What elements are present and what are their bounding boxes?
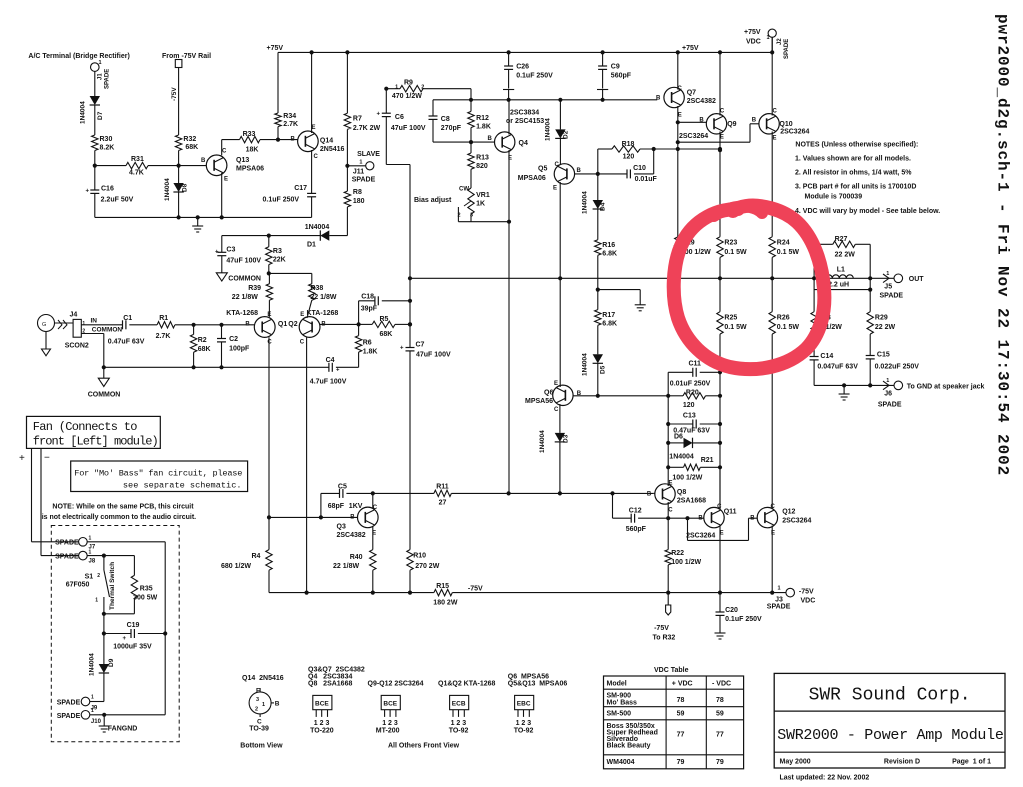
svg-text:180: 180 bbox=[353, 198, 365, 205]
svg-text:MT-200: MT-200 bbox=[376, 727, 400, 734]
svg-text:100pF: 100pF bbox=[229, 346, 250, 353]
svg-text:D4: D4 bbox=[600, 202, 607, 211]
svg-text:R39: R39 bbox=[248, 285, 261, 292]
svg-text:R8: R8 bbox=[353, 189, 362, 196]
svg-text:4. VDC will vary by model - Se: 4. VDC will vary by model - See table be… bbox=[795, 208, 940, 215]
svg-text:B: B bbox=[752, 118, 757, 124]
svg-text:R21: R21 bbox=[701, 457, 714, 464]
svg-text:2.7K: 2.7K bbox=[156, 333, 171, 340]
svg-text:1N4004: 1N4004 bbox=[305, 224, 330, 231]
svg-text:0.047uF 63V: 0.047uF 63V bbox=[817, 364, 858, 371]
svg-text:R3: R3 bbox=[273, 248, 282, 255]
svg-text:-75V: -75V bbox=[654, 625, 669, 632]
svg-text:0.1uF 250V: 0.1uF 250V bbox=[725, 616, 762, 623]
svg-text:B: B bbox=[245, 322, 250, 328]
svg-text:2SC3264: 2SC3264 bbox=[679, 133, 708, 140]
svg-text:B: B bbox=[698, 516, 703, 522]
svg-text:470 1/2W: 470 1/2W bbox=[392, 93, 422, 100]
svg-text:SM-500: SM-500 bbox=[607, 711, 632, 718]
svg-text:Last updated: 22 Nov. 2002: Last updated: 22 Nov. 2002 bbox=[780, 775, 870, 782]
svg-text:SPADE: SPADE bbox=[57, 700, 81, 707]
svg-text:Q2: Q2 bbox=[288, 321, 297, 328]
svg-text:560pF: 560pF bbox=[626, 526, 647, 533]
svg-text:TO-220: TO-220 bbox=[310, 727, 334, 734]
svg-text:Q9-Q12 2SC3264: Q9-Q12 2SC3264 bbox=[368, 681, 424, 688]
svg-text:R15: R15 bbox=[436, 583, 449, 590]
svg-text:C7: C7 bbox=[416, 342, 425, 349]
svg-text:SPADE: SPADE bbox=[55, 554, 79, 561]
svg-text:EBC: EBC bbox=[517, 701, 531, 708]
svg-text:Q1&Q2 KTA-1268: Q1&Q2 KTA-1268 bbox=[438, 681, 496, 688]
svg-text:Q3: Q3 bbox=[337, 524, 346, 531]
svg-text:front [Left] module): front [Left] module) bbox=[33, 435, 158, 449]
svg-text:0.1uF 250V: 0.1uF 250V bbox=[263, 197, 300, 204]
svg-text:J2: J2 bbox=[777, 38, 783, 45]
svg-text:300 5W: 300 5W bbox=[133, 595, 158, 602]
svg-text:R35: R35 bbox=[140, 586, 153, 593]
svg-text:2. All resistor in ohms, 1/4 w: 2. All resistor in ohms, 1/4 watt, 5% bbox=[795, 169, 912, 176]
svg-text:or 2SC4153: or 2SC4153 bbox=[506, 118, 544, 125]
svg-text:E: E bbox=[553, 186, 557, 192]
svg-text:68K: 68K bbox=[198, 346, 211, 353]
svg-text:C19: C19 bbox=[127, 622, 140, 629]
svg-text:Bottom View: Bottom View bbox=[240, 743, 283, 750]
svg-text:1: 1 bbox=[89, 536, 92, 542]
svg-text:Q6 MPSA56: Q6 MPSA56 bbox=[508, 674, 549, 681]
svg-text:C: C bbox=[267, 340, 272, 346]
svg-text:J1: J1 bbox=[98, 73, 104, 80]
svg-text:VDC Table: VDC Table bbox=[654, 667, 689, 674]
svg-text:C9: C9 bbox=[611, 64, 620, 71]
svg-text:+: + bbox=[19, 453, 25, 464]
svg-text:B: B bbox=[488, 136, 493, 142]
svg-text:B: B bbox=[350, 515, 355, 521]
svg-text:J6: J6 bbox=[884, 391, 892, 398]
svg-text:R24: R24 bbox=[777, 240, 790, 247]
svg-text:COMMON: COMMON bbox=[92, 327, 123, 334]
svg-text:59: 59 bbox=[716, 711, 724, 718]
svg-text:1: 1 bbox=[767, 35, 770, 41]
svg-text:SM-900: SM-900 bbox=[607, 693, 632, 700]
svg-text:1N4004: 1N4004 bbox=[164, 178, 171, 201]
svg-text:D5: D5 bbox=[600, 365, 607, 374]
svg-text:47uF 100V: 47uF 100V bbox=[391, 125, 426, 132]
svg-text:0.01uF: 0.01uF bbox=[635, 176, 658, 183]
svg-text:VDC: VDC bbox=[746, 39, 761, 46]
svg-text:560pF: 560pF bbox=[611, 73, 632, 80]
svg-text:1: 1 bbox=[359, 160, 362, 166]
svg-text:Q4: Q4 bbox=[519, 140, 528, 147]
svg-text:MPSA56: MPSA56 bbox=[525, 398, 553, 405]
svg-text:+75V: +75V bbox=[744, 29, 761, 36]
svg-text:C: C bbox=[771, 504, 776, 510]
svg-text:COMMON: COMMON bbox=[228, 276, 261, 283]
svg-text:1: 1 bbox=[99, 60, 102, 66]
svg-text:C15: C15 bbox=[877, 352, 890, 359]
svg-text:Q5&Q13 MPSA06: Q5&Q13 MPSA06 bbox=[508, 681, 568, 688]
svg-text:68K: 68K bbox=[185, 144, 198, 151]
svg-text:Q14 2N5416: Q14 2N5416 bbox=[242, 675, 284, 682]
svg-text:68pF: 68pF bbox=[328, 503, 345, 510]
svg-text:R25: R25 bbox=[724, 315, 737, 322]
svg-text:100 1/2W: 100 1/2W bbox=[671, 559, 701, 566]
svg-text:C6: C6 bbox=[395, 114, 404, 121]
svg-text:1 2 3: 1 2 3 bbox=[314, 720, 330, 727]
svg-text:79: 79 bbox=[716, 759, 724, 766]
svg-text:2SC3834: 2SC3834 bbox=[510, 110, 539, 117]
svg-text:78: 78 bbox=[677, 697, 685, 704]
svg-text:22 2W: 22 2W bbox=[835, 252, 856, 259]
svg-text:18K: 18K bbox=[246, 147, 259, 154]
svg-text:Revision D: Revision D bbox=[884, 759, 920, 766]
svg-text:C10: C10 bbox=[633, 165, 646, 172]
svg-text:C13: C13 bbox=[683, 413, 696, 420]
svg-text:Q7: Q7 bbox=[687, 90, 696, 97]
svg-text:2SC3264: 2SC3264 bbox=[780, 129, 809, 136]
svg-text:1N4004: 1N4004 bbox=[582, 353, 589, 376]
svg-text:For "Mo' Bass" fan circuit, pl: For "Mo' Bass" fan circuit, please bbox=[74, 469, 242, 479]
svg-text:8.2K: 8.2K bbox=[100, 145, 115, 152]
svg-text:820: 820 bbox=[476, 163, 488, 170]
svg-text:R11: R11 bbox=[436, 484, 449, 491]
svg-text:C16: C16 bbox=[101, 186, 114, 193]
svg-text:NOTES (Unless otherwise specif: NOTES (Unless otherwise specified): bbox=[795, 141, 918, 148]
svg-text:C: C bbox=[373, 505, 378, 511]
svg-text:SPADE: SPADE bbox=[352, 177, 376, 184]
svg-text:0.1uF 250V: 0.1uF 250V bbox=[516, 73, 553, 80]
svg-text:TO-92: TO-92 bbox=[449, 727, 469, 734]
svg-text:Q12: Q12 bbox=[782, 509, 795, 516]
svg-text:see separate schematic.: see separate schematic. bbox=[123, 481, 242, 491]
svg-text:WM4004: WM4004 bbox=[607, 759, 635, 766]
svg-text:1000uF 35V: 1000uF 35V bbox=[113, 644, 152, 651]
svg-text:4.7K: 4.7K bbox=[129, 170, 144, 177]
svg-text:1K: 1K bbox=[476, 201, 485, 208]
svg-text:R4: R4 bbox=[252, 553, 261, 560]
svg-text:6.8K: 6.8K bbox=[602, 251, 617, 258]
svg-text:SPADE: SPADE bbox=[878, 402, 902, 409]
svg-text:- VDC: - VDC bbox=[712, 681, 731, 688]
svg-text:2.7K: 2.7K bbox=[283, 121, 298, 128]
svg-text:B: B bbox=[577, 168, 582, 174]
svg-text:COMMON: COMMON bbox=[88, 392, 121, 399]
svg-text:KTA-1268: KTA-1268 bbox=[307, 310, 339, 317]
svg-text:Q14: Q14 bbox=[320, 138, 333, 145]
svg-text:1N4004: 1N4004 bbox=[582, 191, 589, 214]
svg-text:Fan (Connects to: Fan (Connects to bbox=[33, 420, 138, 434]
svg-text:Q9: Q9 bbox=[727, 121, 736, 128]
svg-text:1: 1 bbox=[91, 708, 94, 714]
svg-text:2SC4382: 2SC4382 bbox=[337, 532, 366, 539]
svg-text:D8: D8 bbox=[182, 183, 189, 192]
svg-text:1N4004: 1N4004 bbox=[545, 118, 552, 141]
svg-text:D3: D3 bbox=[563, 434, 570, 443]
svg-text:1.8K: 1.8K bbox=[363, 349, 378, 356]
svg-text:E: E bbox=[773, 136, 777, 142]
svg-text:78: 78 bbox=[716, 697, 724, 704]
svg-text:2.2uF 50V: 2.2uF 50V bbox=[101, 197, 134, 204]
svg-text:67F050: 67F050 bbox=[66, 582, 90, 589]
svg-text:TO-92: TO-92 bbox=[514, 727, 534, 734]
svg-text:79: 79 bbox=[677, 759, 685, 766]
svg-text:SLAVE: SLAVE bbox=[357, 151, 380, 158]
svg-text:TO-39: TO-39 bbox=[249, 726, 269, 733]
svg-text:3: 3 bbox=[256, 697, 259, 703]
svg-text:1: 1 bbox=[82, 321, 85, 327]
svg-text:C12: C12 bbox=[629, 508, 642, 515]
svg-text:-75V: -75V bbox=[171, 87, 178, 101]
svg-text:BCE: BCE bbox=[383, 701, 397, 708]
svg-text:J5: J5 bbox=[884, 284, 892, 291]
svg-text:59: 59 bbox=[677, 711, 685, 718]
svg-text:270pF: 270pF bbox=[441, 125, 462, 132]
svg-text:is not electrically common to: is not electrically common to the audio … bbox=[42, 514, 196, 521]
svg-text:R13: R13 bbox=[476, 155, 489, 162]
svg-text:B: B bbox=[291, 137, 296, 143]
svg-text:+75V: +75V bbox=[682, 45, 699, 52]
svg-text:B: B bbox=[647, 492, 652, 498]
svg-text:MPSA06: MPSA06 bbox=[236, 166, 264, 173]
svg-text:C8: C8 bbox=[441, 116, 450, 123]
svg-text:R30: R30 bbox=[100, 136, 113, 143]
svg-text:0.1 5W: 0.1 5W bbox=[777, 324, 800, 331]
svg-text:B: B bbox=[750, 516, 755, 522]
svg-text:R22: R22 bbox=[671, 550, 684, 557]
svg-text:Bias adjust: Bias adjust bbox=[414, 197, 452, 204]
svg-text:C: C bbox=[314, 154, 319, 160]
svg-text:+: + bbox=[123, 636, 127, 642]
svg-text:CW: CW bbox=[459, 187, 469, 193]
svg-text:22 2W: 22 2W bbox=[875, 324, 896, 331]
svg-text:1N4004: 1N4004 bbox=[80, 101, 87, 124]
svg-text:L1: L1 bbox=[837, 267, 845, 274]
svg-text:+: + bbox=[215, 250, 219, 256]
svg-text:C: C bbox=[773, 109, 778, 115]
svg-text:1N4004: 1N4004 bbox=[669, 454, 694, 461]
svg-text:NOTE: While on the same PCB, t: NOTE: While on the same PCB, this circui… bbox=[52, 504, 194, 511]
svg-text:R23: R23 bbox=[724, 240, 737, 247]
svg-text:R40: R40 bbox=[350, 554, 363, 561]
svg-text:May 2000: May 2000 bbox=[780, 759, 811, 766]
svg-text:Q4 2SC3834: Q4 2SC3834 bbox=[308, 674, 352, 681]
svg-text:SPADE: SPADE bbox=[784, 39, 790, 59]
svg-text:Module is 700039: Module is 700039 bbox=[805, 194, 863, 201]
svg-text:C: C bbox=[554, 407, 559, 413]
svg-text:4.7uF 100V: 4.7uF 100V bbox=[310, 379, 347, 386]
svg-text:+: + bbox=[400, 346, 404, 352]
svg-text:22 1/8W: 22 1/8W bbox=[310, 294, 336, 301]
svg-text:R5: R5 bbox=[380, 316, 389, 323]
svg-text:0.1 5W: 0.1 5W bbox=[724, 249, 747, 256]
svg-text:ECB: ECB bbox=[452, 701, 466, 708]
svg-text:-75V: -75V bbox=[468, 586, 483, 593]
svg-text:C: C bbox=[555, 162, 560, 168]
svg-text:R20: R20 bbox=[686, 390, 699, 397]
svg-text:J11: J11 bbox=[353, 169, 364, 176]
svg-text:E: E bbox=[771, 531, 775, 537]
svg-text:2: 2 bbox=[421, 85, 424, 91]
svg-text:R2: R2 bbox=[198, 337, 207, 344]
svg-text:0.01uF 250V: 0.01uF 250V bbox=[670, 381, 711, 388]
svg-text:R9: R9 bbox=[404, 80, 413, 87]
svg-text:C: C bbox=[300, 340, 305, 346]
svg-text:Black Beauty: Black Beauty bbox=[607, 743, 651, 750]
svg-text:+: + bbox=[377, 112, 381, 118]
svg-text:27: 27 bbox=[439, 500, 447, 507]
svg-text:1N4004: 1N4004 bbox=[89, 653, 96, 676]
svg-text:2.7K 2W: 2.7K 2W bbox=[353, 125, 381, 132]
svg-text:+: + bbox=[86, 189, 90, 195]
svg-text:77: 77 bbox=[716, 732, 724, 739]
svg-text:Q6: Q6 bbox=[544, 390, 553, 397]
svg-text:SWR2000 - Power Amp Module: SWR2000 - Power Amp Module bbox=[777, 727, 1004, 744]
svg-text:FANGND: FANGND bbox=[108, 726, 138, 733]
svg-text:C1: C1 bbox=[123, 315, 132, 322]
svg-text:E: E bbox=[678, 113, 682, 119]
svg-text:Q8 2SA1668: Q8 2SA1668 bbox=[308, 681, 352, 688]
svg-text:To GND at speaker jack: To GND at speaker jack bbox=[907, 384, 985, 391]
svg-text:C11: C11 bbox=[689, 361, 702, 368]
svg-text:R34: R34 bbox=[283, 113, 296, 120]
svg-text:180 2W: 180 2W bbox=[433, 600, 458, 607]
svg-text:MPSA06: MPSA06 bbox=[518, 175, 546, 182]
svg-text:Q11: Q11 bbox=[724, 509, 737, 516]
svg-text:0.022uF 250V: 0.022uF 250V bbox=[875, 364, 920, 371]
svg-text:C3: C3 bbox=[226, 247, 235, 254]
svg-text:2: 2 bbox=[255, 707, 258, 713]
svg-text:+75V: +75V bbox=[267, 45, 284, 52]
svg-text:G: G bbox=[42, 322, 46, 328]
svg-text:+: + bbox=[336, 368, 340, 374]
svg-text:2SC3264: 2SC3264 bbox=[782, 518, 811, 525]
svg-text:Q3&Q7 2SC4382: Q3&Q7 2SC4382 bbox=[308, 667, 365, 674]
svg-text:R26: R26 bbox=[777, 315, 790, 322]
svg-text:2SA1668: 2SA1668 bbox=[677, 498, 706, 505]
svg-text:D2: D2 bbox=[563, 130, 570, 139]
svg-text:D9: D9 bbox=[108, 658, 115, 667]
svg-text:D1: D1 bbox=[307, 242, 316, 249]
svg-text:1.8K: 1.8K bbox=[476, 124, 491, 131]
svg-text:C17: C17 bbox=[294, 185, 307, 192]
svg-text:SCON2: SCON2 bbox=[65, 343, 89, 350]
svg-text:C20: C20 bbox=[725, 607, 738, 614]
svg-text:From -75V Rail: From -75V Rail bbox=[162, 53, 211, 60]
svg-text:R18: R18 bbox=[622, 141, 635, 148]
svg-text:47uF 100V: 47uF 100V bbox=[226, 258, 261, 265]
svg-text:E: E bbox=[224, 177, 228, 183]
svg-text:Q8: Q8 bbox=[677, 489, 686, 496]
svg-text:R1: R1 bbox=[159, 315, 168, 322]
svg-text:47uF 100V: 47uF 100V bbox=[416, 352, 451, 359]
svg-text:Q5: Q5 bbox=[538, 166, 547, 173]
svg-text:1 2 3: 1 2 3 bbox=[516, 720, 532, 727]
svg-text:E: E bbox=[554, 381, 558, 387]
svg-text:1: 1 bbox=[262, 702, 265, 708]
svg-text:SWR Sound Corp.: SWR Sound Corp. bbox=[809, 686, 971, 706]
svg-text:1. Values shown are for all mo: 1. Values shown are for all models. bbox=[795, 156, 911, 163]
svg-text:2SC3264: 2SC3264 bbox=[686, 533, 715, 540]
svg-text:120: 120 bbox=[623, 154, 635, 161]
svg-text:22 1/8W: 22 1/8W bbox=[232, 294, 258, 301]
svg-text:R12: R12 bbox=[476, 115, 489, 122]
svg-text:BCE: BCE bbox=[315, 701, 329, 708]
svg-text:C: C bbox=[222, 149, 227, 155]
svg-text:Q13: Q13 bbox=[236, 157, 249, 164]
svg-text:0.1 5W: 0.1 5W bbox=[777, 249, 800, 256]
svg-text:-75V: -75V bbox=[799, 589, 814, 596]
svg-text:IN: IN bbox=[91, 318, 98, 325]
svg-text:C18: C18 bbox=[361, 294, 374, 301]
svg-text:R7: R7 bbox=[353, 116, 362, 123]
svg-text:SPADE: SPADE bbox=[880, 293, 904, 300]
svg-text:A/C Terminal (Bridge Rectifier: A/C Terminal (Bridge Rectifier) bbox=[28, 53, 129, 60]
svg-text:C: C bbox=[257, 719, 262, 726]
svg-text:R16: R16 bbox=[602, 242, 615, 249]
svg-text:1: 1 bbox=[91, 695, 94, 701]
svg-text:680 1/2W: 680 1/2W bbox=[221, 563, 251, 570]
svg-text:J3: J3 bbox=[775, 597, 783, 604]
svg-text:1: 1 bbox=[886, 271, 889, 277]
svg-text:C5: C5 bbox=[338, 484, 347, 491]
svg-text:S1: S1 bbox=[85, 574, 94, 581]
svg-text:C: C bbox=[668, 508, 673, 514]
svg-text:1: 1 bbox=[778, 586, 781, 592]
svg-text:C26: C26 bbox=[516, 64, 529, 71]
svg-text:R17: R17 bbox=[602, 312, 615, 319]
svg-text:2: 2 bbox=[97, 573, 100, 579]
svg-text:Page 1 of 1: Page 1 of 1 bbox=[952, 759, 991, 766]
svg-text:22K: 22K bbox=[273, 257, 286, 264]
svg-text:2N5416: 2N5416 bbox=[320, 146, 345, 153]
svg-text:VR1: VR1 bbox=[476, 192, 490, 199]
svg-text:77: 77 bbox=[677, 732, 685, 739]
svg-text:Q1: Q1 bbox=[278, 321, 287, 328]
svg-text:22 1/8W: 22 1/8W bbox=[333, 563, 359, 570]
svg-text:To R32: To R32 bbox=[653, 635, 676, 642]
svg-text:All Others Front View: All Others Front View bbox=[388, 743, 460, 750]
svg-text:SPADE: SPADE bbox=[57, 713, 81, 720]
svg-text:270 2W: 270 2W bbox=[415, 563, 440, 570]
svg-text:OUT: OUT bbox=[909, 276, 925, 283]
svg-text:39pF: 39pF bbox=[361, 306, 378, 313]
svg-text:E: E bbox=[267, 312, 271, 318]
svg-text:Q10: Q10 bbox=[779, 121, 792, 128]
svg-text:B: B bbox=[699, 118, 704, 124]
svg-text:SPADE: SPADE bbox=[105, 69, 111, 89]
svg-text:R27: R27 bbox=[835, 236, 848, 243]
svg-text:J8: J8 bbox=[89, 559, 96, 565]
svg-text:E: E bbox=[300, 312, 304, 318]
svg-text:2SC4382: 2SC4382 bbox=[687, 98, 716, 105]
svg-text:J4: J4 bbox=[70, 312, 78, 319]
svg-text:1: 1 bbox=[886, 378, 889, 384]
svg-text:J10: J10 bbox=[91, 719, 102, 725]
svg-text:R33: R33 bbox=[243, 131, 256, 138]
svg-text:1 2 3: 1 2 3 bbox=[382, 720, 398, 727]
svg-text:D7: D7 bbox=[97, 111, 104, 120]
svg-text:C14: C14 bbox=[820, 353, 833, 360]
svg-text:C: C bbox=[720, 109, 725, 115]
svg-text:R10: R10 bbox=[413, 553, 426, 560]
svg-text:1KV: 1KV bbox=[349, 503, 363, 510]
svg-text:1: 1 bbox=[89, 550, 92, 556]
svg-text:C2: C2 bbox=[229, 336, 238, 343]
svg-text:R32: R32 bbox=[183, 136, 196, 143]
svg-text:3. PCB part # for all units is: 3. PCB part # for all units is 170010D bbox=[795, 184, 916, 191]
svg-text:68K: 68K bbox=[380, 331, 393, 338]
svg-text:SPADE: SPADE bbox=[55, 540, 79, 547]
svg-text:C4: C4 bbox=[326, 357, 335, 364]
